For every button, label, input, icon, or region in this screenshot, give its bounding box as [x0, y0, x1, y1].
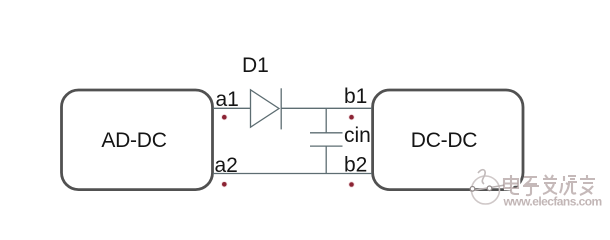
watermark logo circle [470, 170, 505, 204]
diode D1 [251, 88, 282, 129]
svg-text:a1: a1 [216, 88, 239, 111]
svg-text:a2: a2 [215, 154, 238, 177]
svg-text:D1: D1 [242, 54, 269, 77]
node a1 (red dot) [221, 114, 227, 120]
svg-text:www.elecfans.com: www.elecfans.com [503, 195, 602, 209]
svg-text:cin: cin [344, 124, 371, 147]
node b2 (red dot) [348, 181, 354, 187]
block U1 AD-DC [62, 90, 213, 190]
node b1 (red dot) [348, 114, 354, 120]
capacitor Cin [310, 108, 343, 173]
svg-text:AD-DC: AD-DC [101, 129, 166, 152]
svg-text:b1: b1 [344, 85, 367, 108]
block U2 DC-DC [373, 90, 523, 190]
watermark text 电子发烧友 [504, 175, 596, 196]
wire top left (a1 to D1 anode) [213, 107, 251, 109]
watermark url www.elecfans.com [503, 195, 603, 210]
wire bottom (a2 to b2) [213, 173, 372, 175]
wire top right (D1 cathode to b1) [281, 107, 372, 109]
svg-text:b2: b2 [344, 153, 367, 176]
node a2 (red dot) [221, 181, 227, 187]
svg-text:DC-DC: DC-DC [411, 129, 477, 152]
